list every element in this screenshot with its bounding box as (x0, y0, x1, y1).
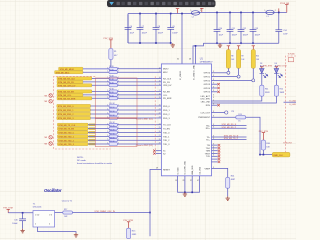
red dashed RJ45 area (285, 56, 296, 152)
wire STM_MII_RXD_3 to resistor (91, 117, 110, 119)
svg-text:1: 1 (118, 71, 119, 73)
wire R17 to U1 X1 (72, 212, 150, 214)
svg-text:these terminations should be i: these terminations should be in snake (77, 162, 113, 165)
svg-text:15: 15 (159, 81, 161, 83)
svg-text:13: 13 (159, 71, 161, 73)
svg-text:R11: R11 (265, 88, 268, 90)
svg-text:CLK_OUT: CLK_OUT (200, 112, 210, 114)
wire R9 to U1 (118, 97, 162, 99)
svg-text:STM_MII_RXD_1: STM_MII_RXD_1 (58, 110, 75, 112)
svg-text:GPIO0: GPIO0 (204, 73, 211, 75)
svg-text:1: 1 (118, 93, 119, 95)
highlighted wire STM_MII_TXD_0 (89, 131, 96, 133)
wire STM_MII_RXD_1 to resistor (91, 109, 110, 111)
svg-text:R14 1K: R14 1K (109, 122, 115, 124)
net label STM_MII_MDIO (59, 67, 83, 71)
svg-text:PWRDN/INT: PWRDN/INT (198, 117, 211, 119)
capacitor C12 (238, 12, 245, 43)
svg-text:330R: 330R (265, 92, 270, 94)
resistor R11 (260, 85, 264, 96)
U1 right pin names (198, 73, 211, 171)
U1 left pins X1 X2 no-connect stubs (156, 150, 162, 152)
resistor R16 (109, 131, 118, 134)
svg-text:48: 48 (189, 58, 191, 60)
svg-text:C9: C9 (172, 26, 174, 28)
U1 right pin numbers (213, 71, 214, 169)
resistor R14 (109, 123, 118, 126)
resistor R17 (109, 135, 118, 138)
svg-text:LED_LNK: LED_LNK (201, 101, 211, 103)
net label STM_MII_MDC (55, 71, 83, 75)
svg-text:C16: C16 (14, 219, 17, 221)
svg-text:R16: R16 (266, 143, 269, 145)
wire R13 to U1 (118, 117, 162, 119)
svg-text:20: 20 (159, 105, 161, 107)
svg-text:DSC1001: DSC1001 (33, 206, 43, 208)
svg-text:TXD_2: TXD_2 (163, 140, 170, 142)
wire R16 to U1 (118, 131, 162, 133)
svg-text:17: 17 (159, 90, 161, 92)
wire R6 to U1 (118, 84, 162, 86)
svg-text:RXD_0: RXD_0 (163, 106, 171, 108)
svg-text:2: 2 (107, 93, 108, 95)
svg-text:R16 1K: R16 1K (109, 130, 115, 132)
svg-text:To RJ45: To RJ45 (288, 54, 295, 56)
net label RMII_REF_CLK (yellow highlighted) (272, 152, 290, 157)
resistor R16 (261, 140, 265, 150)
svg-text:2: 2 (107, 113, 108, 115)
svg-text:GPIO3: GPIO3 (204, 84, 211, 86)
wire STM_MII_COL to resistor (83, 94, 109, 96)
power flag P1V8 hidden behind toolbar (bank1) (176, 9, 179, 14)
resistor R18 (109, 139, 118, 142)
wire bank2 bottom rail to U1 top pins (193, 43, 203, 64)
svg-text:R12 1K: R12 1K (109, 111, 115, 113)
resistor R2 (109, 67, 118, 70)
net label STM_MII_RXD_3 (57, 116, 91, 120)
svg-text:3: 3 (213, 127, 214, 129)
wire R5 to U1 (118, 81, 162, 83)
svg-text:3: 3 (213, 155, 214, 157)
red dashed vertical near U1 (154, 76, 156, 149)
svg-text:3: 3 (213, 116, 214, 118)
svg-text:C12: C12 (243, 28, 246, 30)
svg-text:DP83848IVV: DP83848IVV (200, 62, 213, 64)
wire R1 to MDC row (110, 60, 112, 71)
highlighted wire STM_MII_TX_EN (89, 128, 96, 130)
svg-text:STM_MII_RXD_0: STM_MII_RXD_0 (58, 106, 75, 108)
svg-text:R8: R8 (231, 56, 233, 58)
svg-text:GPIO2: GPIO2 (204, 80, 211, 82)
wire R7 to U1 (118, 90, 162, 92)
wire STM_MII_RX_DV to resistor (83, 81, 109, 83)
svg-text:12: 12 (159, 67, 161, 69)
svg-text:RXD_3: RXD_3 (163, 118, 171, 120)
capacitor C6 (125, 15, 132, 44)
svg-text:1: 1 (118, 131, 119, 133)
capacitor C10 (214, 12, 221, 43)
svg-text:18: 18 (159, 94, 161, 96)
wire R11 to LED_LNK pin (212, 96, 262, 101)
svg-text:IO_CORE_VDD: IO_CORE_VDD (185, 160, 187, 174)
LED D4 (274, 69, 282, 78)
svg-text:37: 37 (190, 180, 192, 182)
svg-text:TCK: TCK (206, 156, 211, 158)
pull-up resistor RP1 (yellow highlighted) (227, 46, 230, 50)
wire STM_MII_TX_CLK to resistor (88, 124, 109, 126)
wire R3 to U1 (118, 71, 162, 73)
svg-text:R11 1K: R11 1K (109, 107, 115, 109)
capacitor C16 (19, 213, 26, 229)
svg-text:MII: MII (45, 101, 48, 103)
ferrite bead L1 (266, 10, 275, 14)
U1 bottom supply pins to ground (178, 176, 200, 193)
wire STM_MII_MDIO to resistor (83, 68, 109, 70)
svg-text:E_LED2: E_LED2 (290, 104, 297, 106)
net label STM_MII_TXD_1 (57, 135, 88, 139)
svg-text:3: 3 (213, 97, 214, 99)
pull-up resistor RP2 (yellow highlighted) (237, 46, 240, 50)
svg-text:NC mode: NC mode (77, 160, 87, 162)
svg-text:3: 3 (213, 90, 214, 92)
svg-text:GPIO4: GPIO4 (204, 88, 211, 90)
cap bank1 bottom rail (128, 42, 171, 44)
net label STM_MII_TX_EN (57, 127, 88, 131)
power stub above C14 node (278, 8, 280, 12)
svg-text:STM_MII_CRS_DV: STM_MII_CRS_DV (58, 85, 76, 87)
svg-text:3: 3 (213, 152, 214, 154)
svg-text:3: 3 (213, 86, 214, 88)
resistor R13 (212, 116, 236, 118)
svg-text:R1: R1 (114, 51, 116, 53)
svg-text:STM_MII_RX_ERR: STM_MII_RX_ERR (58, 98, 76, 100)
net label STM_MII_RXD_1 (57, 108, 91, 112)
ferrite bead L2 (191, 11, 200, 15)
wire R15 to U1 (118, 128, 162, 130)
svg-text:1: 1 (118, 97, 119, 99)
svg-text:Close to PHY (U1): Close to PHY (U1) (136, 144, 153, 147)
cap bank2 top rail (200, 11, 266, 13)
svg-text:1: 1 (118, 143, 119, 145)
ground under C16 (20, 229, 24, 233)
svg-text:R17: R17 (64, 209, 67, 211)
svg-text:STM_MII_TD_P: STM_MII_TD_P (224, 138, 239, 140)
svg-text:TXD_0: TXD_0 (163, 132, 170, 134)
svg-text:R10: R10 (256, 56, 259, 58)
resistor R11 (109, 109, 118, 112)
wire R17 to U1 (118, 135, 162, 137)
svg-text:C14: C14 (283, 30, 286, 32)
svg-text:330R: 330R (280, 92, 285, 94)
power flag P1V8_PHY (bank2 left) (200, 8, 203, 12)
U1 right GPIO3 GPIO4 GPIO5 stubs (212, 83, 218, 85)
svg-text:RX_CLK: RX_CLK (163, 78, 172, 80)
svg-text:C11: C11 (232, 28, 235, 30)
capacitor C11 (227, 12, 234, 43)
floating toolbar (107, 0, 216, 8)
wire STM_MII_RX_ERR to resistor (92, 97, 109, 99)
svg-text:4K7: 4K7 (114, 55, 117, 57)
svg-text:1: 1 (265, 10, 266, 12)
svg-text:STM_MII_RXD_3: STM_MII_RXD_3 (58, 118, 75, 120)
net label STM_MII_TXD_0 (57, 131, 88, 135)
capacitor C13 (250, 12, 257, 43)
svg-text:2: 2 (107, 90, 108, 92)
red dashed placement box (54, 76, 111, 149)
svg-text:IO_VDD: IO_VDD (177, 167, 179, 175)
resistor R9 (109, 97, 118, 100)
toolbar icons (117, 2, 215, 5)
wire Y1 gnd loop (38, 227, 76, 233)
resistor R17 (55, 212, 63, 214)
svg-text:2: 2 (107, 127, 108, 129)
net label STM_MII_RXD_2 (57, 112, 91, 116)
net label STM_MII_RX_CLK (57, 77, 92, 81)
highlighted wire STM_MII_TXD_1 (89, 135, 96, 137)
svg-text:1: 1 (118, 80, 119, 82)
net label STM_MII_CRS_DV (57, 84, 92, 88)
svg-text:R15 1K: R15 1K (109, 126, 115, 128)
svg-text:IO_GND IO_GND: IO_GND IO_GND (193, 64, 195, 80)
wire STM_MII_CRS_DV to resistor (92, 84, 109, 86)
svg-text:R9: R9 (241, 56, 243, 58)
wire R14 to ground (227, 188, 229, 196)
svg-text:2: 2 (200, 10, 201, 12)
svg-text:100nF: 100nF (232, 35, 238, 37)
svg-text:RXD_2: RXD_2 (163, 114, 171, 116)
wire RP2 to GPIO1 (212, 76, 238, 78)
wire R13 to REF_CLK net (246, 117, 273, 154)
svg-text:47: 47 (197, 180, 199, 182)
wire R19 to U1 (118, 143, 162, 145)
svg-text:LED_SPD: LED_SPD (201, 99, 211, 101)
oscillator Y1 body (33, 211, 55, 227)
svg-text:MII: MII (45, 137, 48, 139)
svg-text:TXD_3: TXD_3 (163, 144, 170, 146)
svg-text:R15: R15 (132, 230, 135, 232)
svg-text:2: 2 (107, 105, 108, 107)
svg-text:MDC: MDC (163, 72, 168, 74)
svg-text:1: 1 (118, 123, 119, 125)
svg-text:CRS_DV: CRS_DV (163, 85, 172, 87)
wire R10 to U1 (118, 105, 162, 107)
net label STM_MII_RX_ER (57, 90, 92, 94)
resistor R13 (109, 117, 118, 120)
net label STM_MII_RD_N (212, 125, 247, 127)
U1 JTAG no-connect stubs (212, 144, 218, 146)
svg-text:STM_MII_TXD_1: STM_MII_TXD_1 (58, 137, 74, 139)
svg-text:49K9: 49K9 (132, 234, 136, 236)
wire R14 to U1 (118, 124, 162, 126)
svg-text:L2: L2 (192, 16, 194, 18)
svg-text:2: 2 (107, 71, 108, 73)
red solid box Close to BMT (95, 78, 137, 118)
svg-text:2: 2 (107, 80, 108, 82)
svg-text:3: 3 (213, 79, 214, 81)
wire RP3 to GPIO2 (212, 79, 252, 81)
svg-text:3: 3 (213, 167, 214, 169)
svg-text:2: 2 (275, 10, 276, 12)
wire STM_MII_RXD_0 to resistor (91, 105, 110, 107)
svg-text:21: 21 (159, 109, 161, 111)
svg-text:MDIO: MDIO (163, 69, 169, 71)
resistor R5 (109, 80, 118, 83)
svg-text:C10: C10 (219, 28, 222, 30)
svg-text:4: 4 (49, 223, 50, 225)
capacitor C14 (275, 12, 282, 43)
svg-text:ANA_VDD: ANA_VDD (191, 165, 194, 175)
svg-text:TRST: TRST (205, 153, 211, 155)
wire RP1 to GPIO0 (212, 72, 227, 74)
cap bank1 left edge wire (127, 14, 129, 44)
svg-text:19: 19 (175, 180, 177, 182)
wire STM_MII_TXD_2 to resistor (88, 139, 109, 141)
wire R11 to U1 (118, 109, 162, 111)
svg-text:L1: L1 (267, 16, 269, 18)
svg-text:RX_DV: RX_DV (163, 82, 171, 84)
U1 bottom pin names vertical (177, 160, 201, 174)
ground under R14 (226, 196, 230, 200)
svg-text:2: 2 (107, 84, 108, 86)
resistor R3 (109, 71, 118, 74)
svg-text:1: 1 (118, 109, 119, 111)
svg-text:1: 1 (118, 117, 119, 119)
svg-text:22: 22 (159, 113, 161, 115)
resistor R1 (109, 49, 113, 60)
svg-text:2: 2 (107, 117, 108, 119)
svg-text:C13: C13 (255, 28, 258, 30)
svg-text:100nF: 100nF (243, 35, 249, 37)
svg-text:GPIO5: GPIO5 (204, 92, 211, 94)
U1 CLK_OUT no-ERC circle (212, 112, 225, 114)
svg-text:TDO: TDO (206, 148, 211, 150)
svg-text:STM_25MHZ_OSC_IN: STM_25MHZ_OSC_IN (94, 211, 115, 213)
wire STM_MII_TX_EN to resistor (88, 128, 109, 130)
svg-text:3: 3 (213, 111, 214, 113)
op IC U1 DP83848IVV body (161, 64, 211, 176)
wire P3V to Y1 (8, 212, 33, 214)
svg-text:STM_MII_TXD_3: STM_MII_TXD_3 (58, 144, 74, 146)
svg-text:TX_EN: TX_EN (163, 129, 170, 131)
svg-text:MII: MII (45, 143, 48, 145)
resistor R15 (109, 127, 118, 130)
svg-text:2: 2 (107, 143, 108, 145)
wire R8 to U1 (118, 94, 162, 96)
svg-text:26: 26 (159, 131, 161, 133)
svg-text:R17 1K: R17 1K (109, 134, 115, 136)
svg-text:1: 1 (118, 139, 119, 141)
wire R12 to U1 (118, 113, 162, 115)
svg-text:R14: R14 (231, 176, 234, 178)
svg-text:P3V_STM: P3V_STM (263, 66, 272, 68)
svg-text:TDI: TDI (207, 145, 211, 147)
svg-text:TXD_1: TXD_1 (163, 136, 170, 138)
svg-text:100nF: 100nF (142, 33, 148, 35)
svg-text:RESET: RESET (163, 169, 171, 171)
LED D3 (260, 69, 268, 78)
pull-up resistor RP3 (yellow highlighted) (252, 46, 255, 50)
wire STM_MII_TXD_0 to resistor (88, 131, 109, 133)
U1 left pin names (163, 69, 172, 172)
resistor R7 (109, 90, 118, 93)
svg-text:3: 3 (213, 149, 214, 151)
svg-text:RXD_1: RXD_1 (163, 110, 171, 112)
svg-text:TMS: TMS (206, 151, 211, 153)
svg-text:STM_MII_TX_EN: STM_MII_TX_EN (58, 129, 74, 131)
svg-text:R18 1K: R18 1K (109, 137, 115, 139)
svg-text:100nF: 100nF (158, 33, 164, 35)
svg-text:RMII_CLK: RMII_CLK (274, 155, 284, 157)
net label STM_MII_TXD_2 (57, 139, 88, 143)
net label STM_MII_RXD_0 (57, 104, 91, 108)
svg-text:19: 19 (159, 97, 161, 99)
svg-text:RSV: RSV (206, 105, 211, 107)
net label STM_MII_RD_P (212, 127, 247, 129)
svg-text:GPIO1: GPIO1 (204, 77, 211, 79)
resistor R12 (274, 85, 278, 96)
svg-text:RX_ERR: RX_ERR (163, 98, 172, 100)
net label STM_MII_TD_P (212, 139, 247, 141)
svg-text:1: 1 (118, 90, 119, 92)
wire R16 to REF_CLK net (262, 150, 264, 155)
wire R2 to U1 (118, 68, 162, 70)
svg-text:23: 23 (159, 117, 161, 119)
svg-text:R12: R12 (280, 88, 283, 90)
svg-text:3: 3 (213, 71, 214, 73)
net label STM_MII_RX_ERR (57, 97, 92, 101)
cap bank1 top rail (128, 13, 191, 15)
wire STM_MII_RXD_2 to resistor (91, 113, 110, 115)
svg-text:CD_VDD: CD_VDD (199, 166, 201, 174)
toolbar filter icon (109, 2, 114, 5)
svg-text:2: 2 (107, 131, 108, 133)
wire STM_MII_TXD_1 to resistor (88, 135, 109, 137)
wire R4 to U1 (118, 77, 162, 79)
svg-text:27: 27 (159, 135, 161, 137)
svg-text:STM_MII_TXD_0: STM_MII_TXD_0 (58, 133, 74, 135)
svg-text:3: 3 (213, 138, 214, 140)
svg-text:Close to Y1: Close to Y1 (62, 200, 73, 203)
svg-text:3: 3 (51, 214, 52, 216)
svg-text:28: 28 (159, 139, 161, 141)
wire STM_MII_RX_ER to resistor (92, 90, 109, 92)
svg-text:C7: C7 (142, 26, 144, 28)
svg-text:100nF: 100nF (172, 33, 178, 35)
svg-text:3: 3 (213, 104, 214, 106)
svg-text:3: 3 (213, 135, 214, 137)
svg-text:2: 2 (107, 67, 108, 69)
highlighted wire STM_MII_TX_CLK (89, 124, 96, 126)
highlighted wire STM_MII_TXD_2 (89, 139, 96, 141)
svg-text:2: 2 (107, 109, 108, 111)
net label STM_MII_RX_DV (57, 80, 83, 84)
wire from RJ45 right edge (284, 101, 297, 103)
wire STM_MII_TXD_3 to resistor (88, 143, 109, 145)
resistor R14 RBIAS (212, 168, 228, 177)
svg-text:R13 1K: R13 1K (109, 115, 115, 117)
svg-text:R13: R13 (238, 114, 241, 116)
capacitor C8 (153, 14, 160, 44)
svg-text:2: 2 (35, 223, 36, 225)
wire R12 to LED_SPD pin (212, 96, 277, 103)
svg-text:3: 3 (213, 146, 214, 148)
svg-text:2: 2 (107, 123, 108, 125)
svg-text:14: 14 (159, 77, 161, 79)
net label STM_MII_COL (57, 93, 83, 97)
svg-text:100nF: 100nF (255, 35, 261, 37)
resistor R15 (127, 228, 131, 238)
wire STM_MII_RX_CLK to resistor (92, 77, 109, 79)
